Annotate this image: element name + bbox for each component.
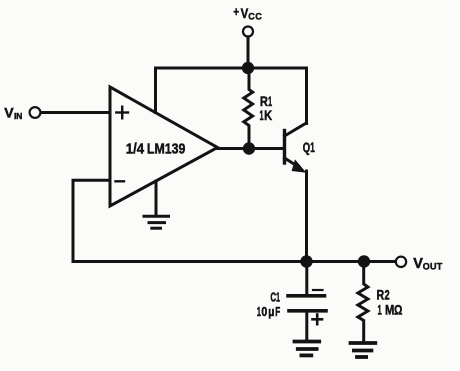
op-amp non-inverting input + marking (116, 107, 128, 119)
resistor R1 (244, 68, 253, 149)
op-amp inverting input - marking (116, 180, 125, 182)
wire op-amp output to Q1 base (218, 147, 285, 150)
terminal VOUT (396, 257, 406, 267)
junction R2 node (358, 255, 370, 267)
svg-text:1: 1 (310, 141, 315, 155)
transistor Q1 (285, 123, 307, 262)
label R2 value (377, 287, 403, 318)
svg-text:M: M (385, 302, 394, 317)
svg-text:OUT: OUT (423, 261, 443, 271)
junction output node (300, 255, 312, 267)
svg-text:1: 1 (257, 305, 261, 320)
capacitor C1 (288, 262, 326, 341)
svg-text:IN: IN (14, 111, 22, 121)
svg-text:1: 1 (260, 109, 264, 124)
C1 positive polarity mark (313, 315, 323, 325)
resistor R2 (358, 262, 368, 343)
svg-text:V: V (413, 256, 423, 272)
svg-text:Q: Q (303, 140, 310, 155)
node VOUT label (413, 256, 443, 272)
ground C1 (295, 342, 320, 356)
svg-text:CC: CC (248, 12, 262, 22)
svg-text:Ω: Ω (394, 302, 402, 318)
label C1 value (257, 290, 281, 319)
wire top rail (156, 68, 307, 124)
svg-text:R: R (260, 94, 268, 109)
svg-text:F: F (275, 305, 280, 319)
svg-text:C: C (270, 290, 276, 304)
svg-text:1: 1 (377, 303, 381, 318)
node +VCC label (233, 5, 262, 22)
terminal VIN (30, 107, 41, 118)
label R1 value (260, 94, 273, 124)
label Q1 (303, 140, 315, 155)
label op-amp 1/4 LM139 (126, 139, 186, 156)
svg-text:R: R (377, 287, 385, 303)
svg-text:V: V (4, 105, 14, 121)
ground op-amp (144, 181, 169, 228)
junction R1/output node (243, 142, 255, 154)
svg-text:K: K (264, 108, 272, 123)
junction Vcc node (242, 62, 254, 74)
svg-text:+: + (233, 6, 239, 19)
svg-text:µ: µ (268, 304, 274, 319)
svg-text:2: 2 (385, 289, 390, 303)
wire VIN to + input (41, 111, 110, 114)
op-amp U1 triangle (110, 87, 218, 206)
svg-text:LM139: LM139 (147, 140, 186, 156)
terminal +VCC (243, 27, 253, 37)
ground R2 (351, 343, 376, 357)
wire feedback (- input to output node) (73, 180, 396, 261)
svg-text:0: 0 (261, 304, 267, 319)
wire Vcc vertical (247, 37, 250, 68)
svg-text:1/4: 1/4 (126, 139, 144, 156)
C1 negative polarity mark (313, 289, 323, 291)
svg-text:1: 1 (276, 291, 280, 305)
node VIN label (4, 105, 22, 121)
